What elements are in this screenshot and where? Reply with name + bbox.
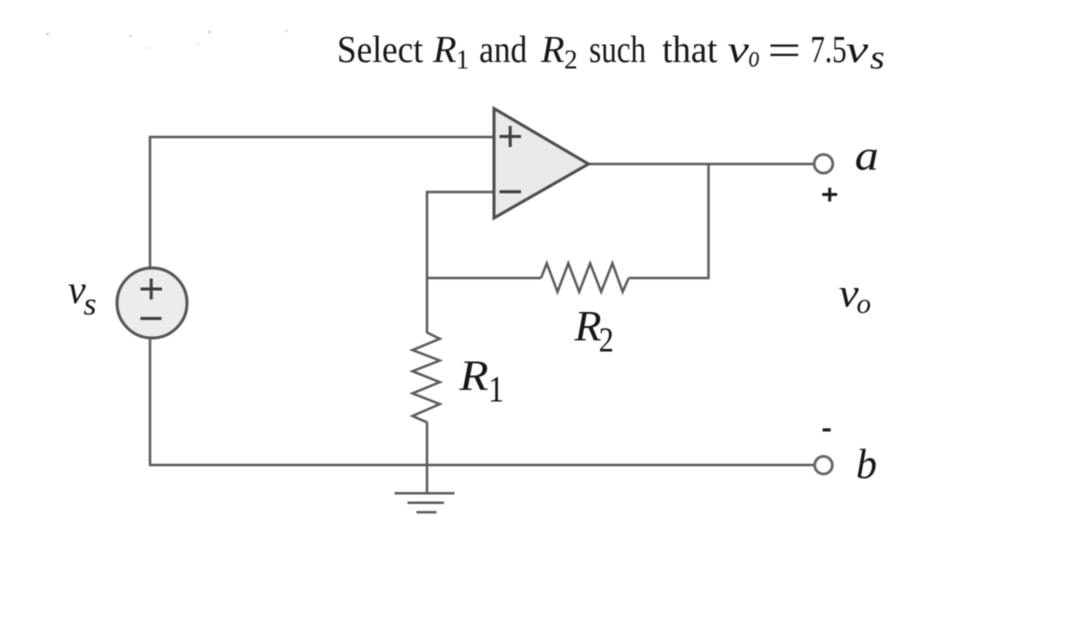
svg-text:that: that (662, 29, 717, 71)
svg-text:s: s (84, 287, 97, 322)
svg-text:2: 2 (564, 45, 578, 75)
svg-text:2: 2 (599, 320, 614, 358)
svg-text:R: R (432, 29, 457, 71)
svg-text:and: and (479, 29, 527, 71)
svg-text:R: R (540, 29, 565, 71)
svg-text:s: s (870, 38, 885, 76)
svg-text:7.5: 7.5 (810, 29, 846, 71)
svg-text:Select: Select (337, 29, 423, 71)
svg-text:a: a (855, 132, 879, 179)
svg-text:o: o (749, 39, 760, 73)
svg-text:b: b (856, 442, 877, 488)
svg-text:v: v (846, 27, 868, 70)
svg-text:=: = (768, 25, 802, 76)
svg-text:1: 1 (488, 369, 504, 410)
svg-text:1: 1 (456, 45, 470, 75)
svg-text:o: o (857, 288, 872, 320)
svg-text:R: R (458, 353, 488, 400)
svg-text:v: v (728, 28, 750, 70)
svg-text:R: R (573, 304, 601, 351)
svg-text:such: such (589, 29, 646, 71)
